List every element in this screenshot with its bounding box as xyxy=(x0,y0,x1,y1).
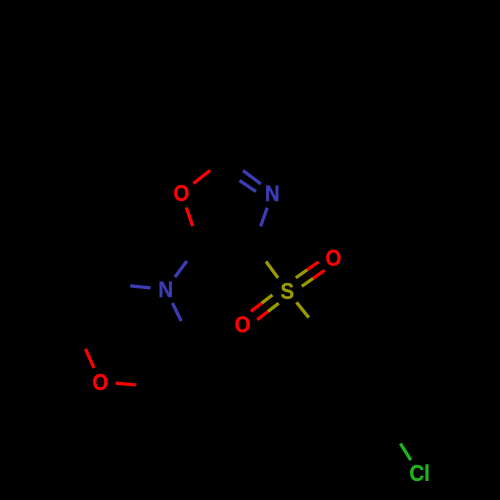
bond C2=N3 outer line (blue half) xyxy=(243,171,261,185)
Cl bond carbon half xyxy=(390,427,400,444)
phenyl ring top xyxy=(179,0,274,102)
bond morpholine N-CH2 right (blue half) xyxy=(172,303,181,321)
oxazole C4=C5 double bond xyxy=(199,236,254,245)
bond C2-phenyl xyxy=(225,102,228,157)
atom label S sulfonyl xyxy=(281,283,293,299)
C5 to morpholine N half xyxy=(187,245,199,261)
S=O upper-right double bond line B oxygen half xyxy=(307,262,318,270)
atom label O1 oxazole xyxy=(174,185,188,201)
S=O lower-left double bond line A oxygen half xyxy=(251,303,262,311)
S=O lower-left double bond line B oxygen half xyxy=(257,311,268,319)
bond morpholine N-CH2 left (blue half) xyxy=(130,286,150,288)
atom label N morpholine xyxy=(160,282,172,297)
S=O upper-right double bond line B sulfur half xyxy=(296,270,307,278)
black carbon skeleton (invisible on black background) xyxy=(77,0,403,444)
bond O1-C5 (red half) xyxy=(186,208,192,227)
chlorophenyl ring xyxy=(294,333,403,427)
bond morpholine O-CH2 upleft (red half) xyxy=(86,349,95,368)
bond O1-C2 (red half) xyxy=(193,170,210,183)
atom label Cl chlorine xyxy=(410,464,428,481)
bond morpholine N-C5 (blue half) xyxy=(175,261,187,277)
bond C2=N3 inner line (blue half) xyxy=(240,181,257,192)
morpholine carbon halves xyxy=(110,284,130,286)
atom label O morpholine xyxy=(93,374,107,390)
atom label O sulfonyl lower xyxy=(235,316,249,332)
atom label O sulfonyl upper xyxy=(326,250,340,266)
bond N3-C4 (blue half) xyxy=(261,208,268,227)
S=O upper-right double bond line A oxygen half xyxy=(313,270,324,278)
bond Cl-C4' (chlorine half) xyxy=(400,444,410,461)
bond S-C4 (sulfur half) xyxy=(266,262,278,278)
C4 to S half xyxy=(254,245,266,262)
bond S-C1' (sulfur half) xyxy=(297,302,309,317)
atom label N3 oxazole xyxy=(266,186,278,201)
S to chlorophenyl half xyxy=(309,318,321,333)
oxazole carbon halves xyxy=(210,157,227,170)
S=O upper-right double bond line A sulfur half xyxy=(302,278,313,286)
S=O lower-left double bond line A sulfur half xyxy=(262,295,273,303)
bond morpholine O-CH2 right (red half) xyxy=(116,383,136,385)
S=O lower-left double bond line B sulfur half xyxy=(268,303,279,311)
